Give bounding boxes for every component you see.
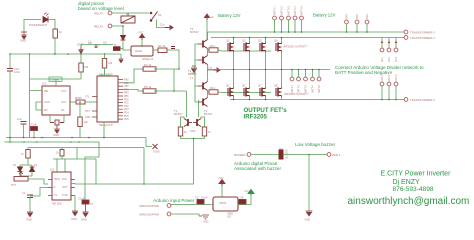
svg-text:DIS: DIS (62, 177, 67, 181)
wire: R3 down to gate rail (167, 50, 179, 69)
wire: bus B y142 (5, 142, 100, 200)
label battery mid vertical texts (291, 84, 321, 93)
potentiometer R17 (11, 172, 28, 187)
wire: bus C y147.5 (28, 147, 144, 149)
wire: Q3 drain/source (265, 38, 267, 43)
node: OUT junction (143, 183, 145, 185)
resistor R16 (21, 150, 30, 159)
wire: relay pin 2 to driver (112, 26, 123, 35)
svg-text:D1: D1 (13, 164, 17, 167)
resistor R2 (79, 63, 89, 72)
node: R4 rail junction (178, 68, 180, 70)
ground GND (pwr2) (199, 215, 209, 224)
resistor R11 (209, 44, 218, 52)
wire: diodes to pot (20, 172, 32, 177)
label BATTERY+ vertical texts (273, 6, 303, 15)
wire: resistor to bus (54, 38, 56, 54)
wire: top battery bus y32 (208, 31, 405, 33)
svg-text:Q7: Q7 (258, 84, 262, 88)
transistor T1 (second pair top) (198, 82, 208, 91)
svg-text:T1: T1 (190, 76, 194, 80)
ground SGND cross (153, 144, 161, 154)
svg-text:Q3: Q3 (258, 39, 262, 43)
wire: base rail to BC547 pair tops (174, 91, 199, 117)
svg-text:MEGA 8-P: MEGA 8-P (99, 123, 113, 127)
wire: Q6 drain/source (249, 70, 251, 88)
node: bus A dots (9, 137, 105, 139)
wire: base network down to bus (80, 45, 82, 47)
svg-text:PD6: PD6 (124, 118, 129, 121)
wire: MEGA8 gnd to bus A (103, 122, 105, 138)
svg-text:GND: GND (44, 101, 50, 104)
label T3 BC547 (190, 27, 199, 34)
supply 12v arrow (lower) (208, 66, 220, 73)
svg-text:IC2: IC2 (50, 168, 55, 172)
wire: VCC to coil wire (141, 40, 143, 47)
wire: coil to R3 (153, 49, 158, 51)
supply +5V arrow (244, 189, 254, 196)
svg-text:BC547: BC547 (190, 30, 199, 34)
svg-text:GND: GND (305, 218, 311, 222)
wire: base rail T4 (195, 59, 198, 61)
svg-text:1k: 1k (184, 130, 187, 134)
svg-text:1k: 1k (21, 153, 24, 156)
svg-text:ainsworthlynch@gmail.com: ainsworthlynch@gmail.com (348, 196, 470, 207)
wire: 555 top routing (53, 148, 96, 185)
wire: rises to mid bus y69.5 (292, 70, 319, 78)
svg-text:OUT: OUT (61, 101, 67, 104)
svg-text:TRANSFORMER-2: TRANSFORMER-2 (410, 31, 435, 35)
label IC1 pin names (44, 90, 67, 112)
svg-text:Q6: Q6 (242, 84, 246, 88)
node: bus B dots (9, 141, 80, 143)
label sense arrowheads (381, 41, 397, 44)
svg-text:BC547: BC547 (174, 112, 183, 116)
buzzer SG1 (279, 149, 283, 160)
diode D2 (30, 164, 38, 172)
node: bus junctions y54 (9, 53, 105, 55)
resistor R10 (78, 117, 89, 127)
wire: Q1 drain/source (233, 38, 235, 43)
wire: multivibrator tops (181, 117, 205, 127)
annotation: OUTPUT FETs (244, 107, 288, 120)
svg-text:BATT+3: BATT+3 (287, 6, 290, 15)
resistor R8 above MEGA8 (102, 59, 113, 69)
svg-text:10k: 10k (103, 42, 108, 45)
svg-text:P$1: P$1 (44, 90, 49, 93)
wire: R12 to FET row2 gate rail (218, 91, 271, 94)
svg-text:NC: NC (61, 109, 65, 112)
wire: T4 collector (207, 50, 209, 56)
timer IC2 NE555 (52, 172, 71, 200)
pin RELAY-1 (94, 11, 112, 16)
svg-text:1k: 1k (59, 30, 63, 34)
pin BUZZER (234, 153, 251, 157)
wire: bottom bus A y137.5 (6, 137, 146, 139)
wire: pwr1 to regulator (171, 204, 213, 206)
svg-text:CV: CV (54, 193, 58, 197)
capacitor C7 on x85 (78, 197, 94, 207)
svg-text:POT: POT (11, 184, 16, 187)
supply 12v arrow (160, 23, 173, 30)
capacitor C2b left (17, 117, 27, 124)
svg-text:IRF3205: IRF3205 (244, 113, 268, 120)
svg-text:GND: GND (20, 39, 26, 43)
wire: MEGA8 pin to R5 (123, 89, 144, 91)
label T1 BC547 (190, 76, 194, 80)
wire: C3b to bus (33, 131, 35, 138)
svg-text:RELAY: RELAY (94, 12, 103, 16)
svg-text:EN: EN (44, 109, 48, 112)
capacitor C4 (22, 192, 33, 212)
mosfet Q8 (274, 84, 282, 98)
svg-text:Q2: Q2 (242, 39, 246, 43)
svg-text:GND: GND (81, 218, 87, 222)
pin BATTERY+ group (5 circles top) (273, 16, 304, 20)
svg-text:0.1uF: 0.1uF (78, 197, 85, 201)
resistor R1 (53, 29, 63, 38)
crystal Q9 below IC1 (50, 119, 64, 125)
pin 555 stubs (48, 180, 75, 196)
ground GND (C4) (26, 212, 33, 222)
LED POWERLED (43, 13, 49, 23)
label MEGA8 left pin names (85, 96, 91, 120)
svg-text:Q1: Q1 (226, 39, 230, 43)
label T4 BC547 (188, 69, 197, 76)
capacitor C10 (7, 67, 20, 74)
wire: 555 left pin R (30, 188, 48, 197)
wire: switch to 12v arrow (157, 20, 166, 28)
wire: 5 drops to bus y32 (275, 20, 302, 32)
node: R10 top junction (79, 101, 81, 103)
capacitor C8 (239, 196, 246, 205)
svg-text:M336: M336 (75, 96, 82, 100)
pin batt sense top (3 circles with arrows) (380, 48, 398, 52)
wire: relay pin 1 to contact (112, 13, 128, 16)
wire: R4 to x179 rail (154, 68, 179, 70)
svg-text:based on voltage level: based on voltage level (78, 6, 124, 11)
transistor T6 relay driver (114, 44, 124, 50)
node: dots y99.5 (381, 99, 397, 101)
capacitor C9 (195, 196, 208, 205)
node: dots on bus y32 (274, 31, 303, 33)
svg-text:S1: S1 (158, 13, 162, 17)
svg-text:C4: C4 (22, 192, 26, 195)
svg-text:GND: GND (203, 221, 209, 224)
svg-text:TRANSFORMER-3: TRANSFORMER-3 (410, 98, 435, 102)
transistor T1L multivibrator (184, 119, 192, 127)
switch S1 (128, 12, 162, 22)
svg-text:BATT+5: BATT+5 (300, 6, 303, 15)
mosfet Q6 (242, 84, 250, 98)
pin battery mid group (5 circles y79) (290, 77, 321, 81)
svg-text:BAT+: BAT+ (345, 13, 348, 19)
svg-text:VCC: VCC (61, 90, 66, 93)
transistor T3 (198, 40, 208, 49)
svg-text:78L05: 78L05 (219, 201, 227, 205)
pin battery aux group (3 circles) (345, 20, 369, 24)
annotation: Arduino digital Pinout note (234, 161, 281, 171)
label 7805 (227, 212, 233, 219)
wire: regulator out (238, 196, 251, 205)
mosfet Q7 (258, 84, 266, 98)
label sense bottom vertical texts (381, 74, 398, 82)
capacitor C3a (by coil) (171, 47, 175, 49)
resistor R4 (143, 63, 156, 71)
wire: VCC to regulator (221, 186, 223, 197)
svg-text:C7: C7 (90, 202, 94, 206)
svg-text:Q5: Q5 (226, 84, 230, 88)
svg-text:BATT Positive and Negative: BATT Positive and Negative (335, 70, 392, 75)
pin ARDUINOPWR-1 (139, 204, 171, 208)
wire: diode to coil (123, 40, 131, 50)
node: pair bottom junction (193, 138, 195, 140)
svg-text:1uF: 1uF (88, 42, 93, 45)
svg-text:A0-2: A0-2 (388, 56, 391, 62)
svg-text:C8: C8 (240, 196, 244, 200)
wire: IC1 bottom pins to crystal (50, 115, 64, 119)
ground GND (on bus) (77, 43, 84, 54)
svg-text:ZER-1: ZER-1 (332, 153, 341, 157)
wire: R10 rail (79, 102, 81, 138)
capacitor C3b (31, 123, 38, 131)
annotation: digital pinout note (78, 1, 124, 11)
ground GND (C7) (81, 204, 89, 222)
ground GND (crystal) (53, 125, 60, 137)
wire: R11 to FET row1 gate rail (218, 50, 271, 51)
wire: batt arrow to T3 (206, 20, 208, 40)
svg-text:Q8: Q8 (274, 84, 278, 88)
svg-text:BAT+: BAT+ (366, 13, 369, 19)
svg-text:TRIG: TRIG (54, 177, 60, 181)
wire: 3 drops to bus y32 (347, 24, 368, 32)
op-amp IC1 oscillator box (42, 86, 70, 115)
svg-text:IC1: IC1 (42, 82, 47, 86)
label NE555 pin names (54, 177, 69, 197)
svg-text:12v: 12v (160, 23, 165, 27)
wire: buzzer pin to buzzer (251, 154, 279, 156)
wire: Q8 drain/source (281, 70, 283, 88)
svg-text:D2: D2 (34, 164, 38, 167)
svg-text:BATT+4: BATT+4 (294, 6, 297, 15)
svg-text:XT1: XT1 (85, 96, 90, 99)
mosfet Q4 (274, 39, 282, 53)
pin ARDUINOPWR-2 (139, 212, 171, 216)
svg-text:R: R (54, 185, 56, 189)
resistor R9 resonator (75, 96, 85, 104)
regulator IC5 7805 (213, 197, 238, 211)
svg-text:16MHZ: 16MHZ (50, 78, 60, 82)
svg-text:C9: C9 (195, 196, 199, 200)
svg-text:ARDUINOPWR: ARDUINOPWR (139, 213, 159, 217)
svg-text:R11: R11 (210, 44, 215, 48)
svg-text:0.1uF: 0.1uF (31, 123, 38, 127)
svg-text:+5V: +5V (244, 189, 249, 193)
svg-text:R3 1k: R3 1k (158, 44, 166, 48)
wire: Q4 drain/source (281, 38, 283, 43)
resistor R15 small vertical (56, 150, 64, 157)
svg-text:GND-2: GND-2 (388, 74, 391, 82)
svg-text:R: R (98, 45, 100, 48)
wire: IC1 right pin to resonator (70, 101, 76, 103)
svg-text:876-593-4898: 876-593-4898 (393, 186, 434, 193)
resistor R5 (143, 85, 156, 93)
wire: T3 emitter to R11 (208, 49, 210, 51)
svg-text:BUZZER: BUZZER (234, 153, 246, 157)
node: row1 drain dots (233, 37, 283, 39)
svg-text:RST: RST (85, 110, 90, 113)
svg-text:GND: GND (71, 217, 77, 221)
svg-text:R4 1k: R4 1k (144, 63, 152, 67)
node: dots aux (346, 31, 368, 33)
label T1 BC547 pair left (174, 109, 183, 116)
svg-text:GND: GND (85, 116, 91, 119)
svg-text:GND-3: GND-3 (395, 74, 398, 82)
svg-text:+12: +12 (209, 15, 214, 19)
wire: LED cathode to resistor (48, 20, 55, 30)
wire: pot to 555 TRIG (28, 179, 48, 184)
svg-text:SGND: SGND (153, 151, 160, 154)
svg-text:IC5: IC5 (227, 215, 232, 219)
diode D1 (13, 164, 23, 172)
ground GND (555) (71, 211, 78, 221)
wire: 555 OUT to multivibrator (71, 139, 194, 184)
wire: IC1 left pin stubs (30, 91, 43, 111)
label battery aux vertical texts (345, 13, 369, 19)
svg-text:TRANSFORMER-1: TRANSFORMER-1 (410, 36, 435, 40)
wire: R16 stubs (20, 148, 32, 167)
svg-text:THR: THR (62, 193, 68, 197)
svg-text:GND-1: GND-1 (381, 74, 384, 82)
transistor T2R multivibrator (193, 119, 201, 127)
resistor R12 (209, 86, 218, 94)
svg-text:1uF: 1uF (17, 117, 22, 121)
svg-text:0.1uF: 0.1uF (201, 196, 208, 200)
resistor R7 right emitter (202, 127, 211, 136)
svg-text:1k: 1k (208, 130, 211, 134)
supply VCC arrow (relay coil) (138, 31, 145, 41)
pin BUZZER-1 (327, 153, 341, 157)
svg-text:R5 1k: R5 1k (144, 85, 152, 89)
svg-text:VCC: VCC (138, 31, 144, 35)
svg-text:1k: 1k (56, 152, 59, 155)
label sense vertical texts below (381, 56, 398, 62)
wire: sense arrows up to y37.5 (382, 38, 396, 49)
svg-text:10k: 10k (84, 120, 89, 124)
capacitor C1 stub (95, 45, 100, 48)
svg-text:VCC: VCC (218, 176, 224, 180)
ground GND (relay corner) (119, 59, 124, 63)
microcontroller IC3 MEGA8 (97, 76, 118, 122)
wire: T3 T4 base rail (195, 44, 198, 86)
relay K1 coil (131, 46, 154, 61)
svg-text:POWERLED?: POWERLED? (29, 23, 48, 27)
wire: R15 stubs (61, 148, 63, 160)
wire: IC1 routing top rail (30, 78, 82, 80)
svg-text:Battery 12V: Battery 12V (313, 13, 336, 18)
svg-text:BATT-5: BATT-5 (318, 84, 321, 93)
supply VCC (regulator) (218, 176, 225, 186)
pin TRANSFORMER-3 (404, 98, 435, 102)
pin MEGA8 right pins (118, 80, 123, 120)
wire: pwr2 to gnd hook (171, 214, 199, 216)
wire: left rail x10 (9, 54, 11, 68)
wire: C2b to bus (23, 124, 25, 138)
wire: T2 base stub (195, 86, 198, 102)
wire: source bus y99.5 (230, 99, 404, 101)
svg-text:A0-3: A0-3 (395, 56, 398, 62)
wire: bus corner down at x121 (120, 54, 122, 59)
svg-text:OUT: OUT (62, 185, 68, 189)
pin TRANSFORMER-1 (404, 36, 435, 40)
mosfet Q3 (258, 39, 266, 53)
wire: T4 emitter to gnd arrow (208, 65, 214, 71)
svg-text:Dj ENZY: Dj ENZY (393, 179, 421, 186)
wire: T1 collector to mid bus (207, 70, 209, 82)
wire: resonator to MEGA8 (85, 101, 97, 103)
wire: 555 THR down (74, 196, 76, 212)
relay K1 contact (121, 12, 135, 23)
svg-text:G5LE-14: G5LE-14 (142, 57, 154, 61)
mosfet Q1 (226, 39, 234, 53)
wire: sense bottom drops to y99.5 (382, 86, 396, 100)
wire: relay base network y44.5 (81, 44, 113, 46)
svg-text:GND: GND (26, 218, 32, 222)
svg-text:Q4: Q4 (274, 39, 278, 43)
wire: R5 to pair2 base (154, 69, 174, 91)
pin batt sense bottom (3 circles) (380, 82, 398, 86)
pin TRANSFORMER-2 (404, 30, 435, 34)
ground GND (T4) (190, 66, 197, 76)
label T2 BC547 pair right (204, 109, 213, 116)
wire: drain bus y37.5 (211, 37, 404, 39)
svg-text:BATT+1: BATT+1 (273, 6, 276, 15)
pin RELAY-2 (94, 24, 112, 29)
svg-text:10uF: 10uF (14, 70, 20, 74)
resistor R3 (158, 44, 167, 53)
svg-text:IRF3205 OUTFET?: IRF3205 OUTFET? (284, 92, 309, 96)
svg-text:GND: GND (190, 130, 196, 133)
wire: T3 collector to top bus (207, 32, 209, 40)
wire: bus A end to SGND (146, 138, 152, 147)
svg-text:10k: 10k (84, 65, 89, 69)
svg-text:GND: GND (53, 133, 59, 137)
diode D3 flyback (121, 36, 126, 41)
wire: buzzer junction to gnd (308, 155, 310, 212)
wire: T2 collector (207, 92, 209, 98)
svg-text:G5LE: G5LE (135, 49, 142, 53)
svg-text:R12: R12 (210, 86, 216, 90)
label 16MHZ tag (49, 77, 62, 82)
svg-text:10k: 10k (108, 61, 113, 65)
svg-text:BAT+: BAT+ (356, 13, 359, 19)
transistor T2 (second pair bottom) (198, 98, 208, 107)
svg-text:Associated with buzzer: Associated with buzzer (234, 166, 281, 171)
svg-text:Low Voltage buzzer: Low Voltage buzzer (295, 142, 336, 147)
node: relay2 junction (122, 25, 124, 27)
svg-text:E.CITY Power Inverter: E.CITY Power Inverter (381, 171, 452, 178)
svg-text:A0-1: A0-1 (381, 56, 384, 62)
supply +BATT arrow (205, 14, 214, 20)
wire: IC1 top pin (55, 79, 57, 86)
svg-text:BC547: BC547 (204, 112, 213, 116)
label C1 1uF (88, 41, 93, 46)
svg-text:BATT+2: BATT+2 (280, 6, 283, 15)
wire: left power bus y54 (10, 53, 121, 55)
svg-text:BUZZER: BUZZER (286, 149, 289, 159)
mosfet Q2 (242, 39, 250, 53)
svg-text:NE 555: NE 555 (52, 202, 62, 206)
